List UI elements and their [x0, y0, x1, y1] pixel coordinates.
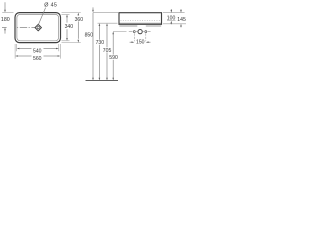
svg-text:340: 340 — [65, 24, 74, 30]
dimension 340 extension top — [62, 13, 70, 15]
dimension 180 lower arrow — [4, 28, 6, 31]
svg-text:560: 560 — [33, 56, 42, 62]
dimension 850 line — [92, 7, 94, 9]
dimension 100 arrows — [170, 9, 172, 10]
dimension 540 extension lines — [16, 44, 18, 51]
dimension 560 extension lines — [14, 44, 16, 59]
front view inner bottom hidden line — [121, 20, 161, 22]
leader line for diameter 45 — [38, 8, 45, 25]
dimension 705 line — [106, 23, 108, 26]
svg-text:850: 850 — [85, 32, 94, 38]
svg-text:145: 145 — [177, 17, 186, 23]
rim top extension line right side — [163, 12, 185, 14]
dimension 560 line with arrows — [15, 55, 18, 57]
fixing holes vertical extension dashes — [133, 33, 135, 41]
svg-text:730: 730 — [96, 40, 105, 46]
dimension 145 arrows — [180, 9, 182, 10]
svg-text:540: 540 — [33, 48, 42, 54]
dimension 360 extension bottom — [62, 42, 81, 44]
inner bottom extension line right side — [167, 20, 176, 22]
basin bottom extension line right side — [163, 23, 186, 25]
rim top extension line to height dims — [93, 12, 118, 14]
right fixing hole — [145, 31, 147, 33]
drain square (rotated) — [35, 24, 41, 30]
front view lower edge detail — [120, 22, 162, 24]
svg-text:180: 180 — [1, 17, 10, 23]
svg-text:Ø 45: Ø 45 — [44, 3, 57, 9]
svg-text:150: 150 — [136, 40, 145, 46]
dimension 360 extension top — [62, 12, 81, 14]
svg-text:100: 100 — [167, 16, 176, 22]
dimension 340 line with arrows — [66, 14, 68, 17]
dimension 360 line with arrows — [78, 13, 80, 16]
dimension 590 line — [112, 31, 114, 34]
plan view inner basin edge — [17, 14, 59, 40]
waste outlet extension line — [113, 30, 126, 32]
drain inner circle — [37, 26, 39, 28]
dimension 150 line with outside arrows — [130, 41, 132, 43]
dimension 730 line — [99, 23, 101, 26]
basin bottom extension line to height dims — [98, 22, 118, 24]
dimension 540 line with arrows — [17, 48, 20, 50]
dimension 340 extension bottom — [62, 40, 70, 42]
floor line — [86, 80, 119, 82]
lower rear edge below basin — [119, 25, 137, 27]
svg-text:590: 590 — [109, 55, 118, 61]
wall drain circle — [138, 29, 142, 33]
svg-text:360: 360 — [75, 17, 84, 23]
front view body — [119, 13, 162, 25]
dimension 180 upper extension line — [2, 12, 13, 14]
plan view outer rim — [15, 13, 61, 43]
left fixing hole — [133, 31, 135, 33]
dimension 180 upper arrow — [4, 2, 6, 10]
drain horizontal centerline — [129, 31, 133, 33]
svg-text:705: 705 — [103, 48, 112, 54]
drain centerline — [2, 27, 35, 29]
